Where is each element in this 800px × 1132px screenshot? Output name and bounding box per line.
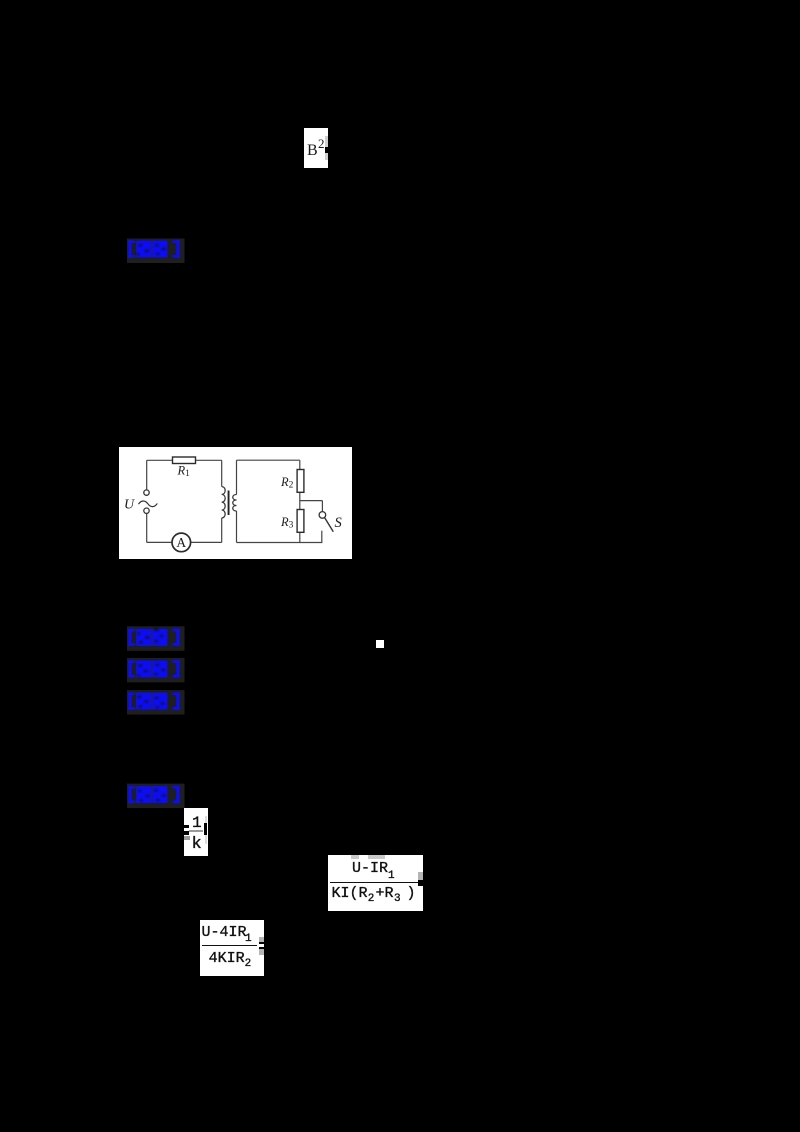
svg-text:S: S [335,515,343,531]
wire right-loop top [237,459,300,461]
wire secondary top [236,460,238,494]
wire primary top [221,460,223,486]
wire switch stub [321,531,323,543]
transformer primary coil [222,487,225,518]
figure white background [119,447,352,559]
wire R2 to R3 [299,492,301,509]
label backing shadows [127,239,185,809]
wire bottom-right [237,542,323,544]
resistor R3 [297,510,304,533]
formula image: B squared [304,128,328,168]
formula image: (U-IR1)/(KI(R2+R3)) [328,855,423,911]
wire top-left to R1 [147,459,173,461]
label jieda [128,786,179,803]
transformer secondary coil [233,495,237,512]
wire left vertical [146,460,148,490]
wire primary bottom [221,518,223,543]
source terminal lower [144,508,149,513]
small white dot formula [376,640,384,648]
wire junction to switch [300,500,323,502]
label zhuanti [128,660,179,677]
formula image: (U-4IR1)/(4KIR2) [200,920,264,976]
source terminal upper [144,490,149,495]
wire switch top [321,501,323,512]
transformer core [228,491,230,516]
ammeter A [172,533,191,552]
circuit schematic figure [119,447,352,559]
wire ammeter to right [191,541,222,543]
resistor R2 [297,470,304,493]
wire R1 to right [196,459,222,461]
switch S contact [319,512,326,519]
formula image: = 1/k [184,808,208,856]
svg-text:A: A [176,535,186,550]
wire below R3 [299,532,301,542]
switch S blade [325,518,334,532]
source tilde [139,501,158,507]
label kaodian [128,628,179,646]
label fenxi [128,692,179,709]
wire below source [146,513,148,542]
label dianping [128,240,179,257]
wire bottom-left [147,541,172,543]
wire above R2 [299,460,301,469]
svg-text:U: U [124,498,135,513]
resistor R1 [173,457,196,464]
wire secondary bottom [236,511,238,543]
